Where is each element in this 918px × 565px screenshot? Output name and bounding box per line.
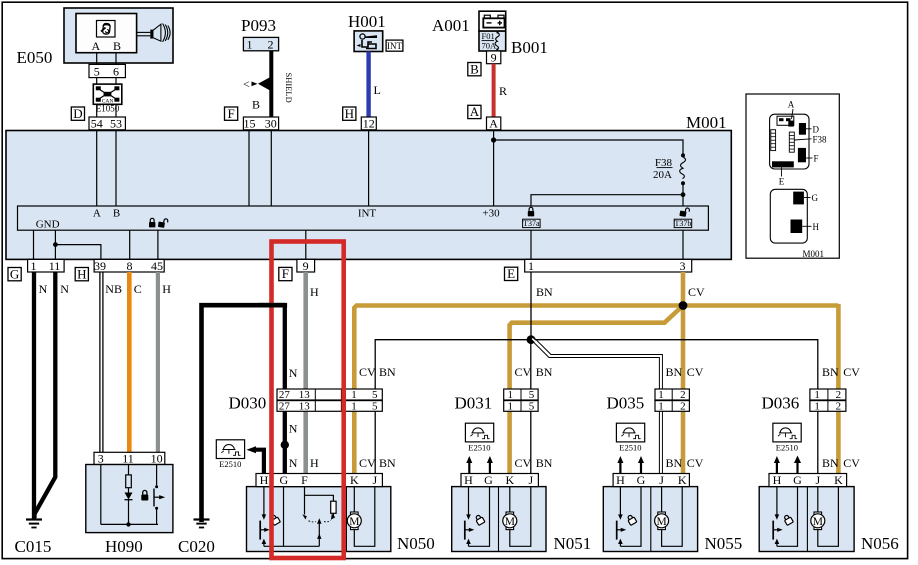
arrow up from N056 pin G	[794, 456, 801, 474]
connector pins 54 53 on M001	[89, 117, 125, 131]
svg-text:G: G	[484, 473, 493, 487]
svg-text:H: H	[310, 456, 319, 470]
svg-text:B001: B001	[511, 38, 548, 57]
svg-text:P093: P093	[241, 16, 276, 35]
wire pin30	[270, 130, 272, 207]
svg-text:1: 1	[508, 401, 514, 413]
connector pins H G J K of N056	[769, 473, 847, 487]
wire BN down to D031 and N051 pin J	[530, 340, 532, 474]
wire H grey pin9 to D030	[303, 272, 308, 474]
svg-text:1: 1	[658, 401, 664, 413]
svg-text:B: B	[252, 98, 260, 112]
wire T37b to pin 3	[682, 230, 684, 259]
svg-text:E050: E050	[17, 48, 53, 67]
svg-text:CV: CV	[687, 456, 704, 470]
window motor assembly N056	[759, 487, 854, 552]
svg-text:1: 1	[351, 401, 357, 413]
svg-text:D030: D030	[229, 394, 267, 413]
svg-text:N: N	[289, 422, 298, 436]
node H mid	[75, 266, 88, 281]
svg-text:N050: N050	[397, 534, 435, 553]
svg-text:CV: CV	[843, 365, 860, 379]
svg-text:N: N	[289, 456, 298, 470]
door switch in N050	[260, 487, 280, 547]
wire CAN to pin 54	[96, 104, 98, 117]
wire pin12 to INT	[368, 130, 370, 207]
connector pin A on M001	[487, 117, 501, 131]
svg-text:K: K	[505, 473, 514, 487]
svg-text:1: 1	[814, 389, 820, 401]
window motor assembly N050	[247, 487, 391, 552]
svg-text:H: H	[616, 473, 625, 487]
door switch in N056	[773, 487, 793, 547]
svg-text:+30: +30	[482, 208, 500, 220]
wire E050 A to pin 5	[96, 53, 98, 65]
svg-text:1: 1	[658, 389, 664, 401]
svg-text:L: L	[374, 83, 381, 97]
svg-text:10: 10	[151, 452, 163, 466]
wire pin53 to B	[115, 130, 117, 207]
shield wire from P093 pin 2	[243, 51, 271, 117]
body computer M001	[6, 113, 731, 259]
node B	[468, 61, 481, 76]
svg-text:9: 9	[491, 51, 497, 65]
motor M in N051	[503, 512, 517, 530]
highlight red rectangle	[272, 242, 344, 559]
svg-text:70A: 70A	[482, 41, 498, 51]
svg-text:BN: BN	[536, 456, 553, 470]
svg-text:A001: A001	[432, 16, 470, 35]
svg-text:H090: H090	[105, 537, 143, 556]
GND wire to pin 11	[54, 230, 56, 259]
svg-text:E2510: E2510	[776, 443, 798, 453]
svg-text:CV: CV	[843, 456, 860, 470]
svg-text:N056: N056	[861, 534, 899, 553]
connector pins 3 11 10 of H090	[94, 452, 165, 466]
svg-text:F: F	[814, 154, 819, 164]
node F mid	[279, 266, 292, 281]
svg-text:A: A	[91, 39, 100, 53]
svg-text:B: B	[113, 208, 120, 220]
svg-text:2: 2	[836, 389, 842, 401]
svg-text:N055: N055	[705, 534, 743, 553]
connector D036	[810, 389, 846, 413]
svg-text:F38: F38	[813, 135, 828, 145]
wire L blue from H001	[366, 52, 370, 118]
svg-text:D035: D035	[607, 394, 645, 413]
svg-text:13: 13	[299, 389, 311, 401]
padlock open in strip	[158, 218, 168, 228]
node H top	[343, 106, 356, 121]
connector pins 5 6 of E050	[89, 64, 125, 78]
junction dot on N wire	[281, 441, 289, 449]
wire T37a to pin 1	[530, 230, 532, 259]
svg-text:53: 53	[110, 117, 122, 131]
svg-text:D031: D031	[455, 394, 493, 413]
svg-text:3: 3	[98, 452, 104, 466]
svg-text:J: J	[528, 473, 533, 487]
connector pins H G F K J of N050	[256, 473, 382, 487]
wire strip to pin 8	[129, 230, 131, 259]
svg-text:INT: INT	[358, 208, 377, 220]
svg-text:1: 1	[508, 389, 514, 401]
svg-text:15: 15	[244, 117, 256, 131]
svg-text:N: N	[289, 366, 298, 380]
svg-text:27: 27	[279, 389, 291, 401]
wire pin6 to CAN node	[115, 78, 117, 85]
svg-text:BN: BN	[666, 365, 683, 379]
svg-text:11: 11	[49, 259, 61, 273]
svg-text:C020: C020	[178, 537, 215, 556]
svg-text:54: 54	[91, 117, 103, 131]
svg-text:BN: BN	[822, 456, 839, 470]
T37b terminal with padlock	[674, 207, 692, 228]
svg-text:2: 2	[836, 401, 842, 413]
svg-text:1: 1	[31, 259, 37, 273]
GND branch to pin 39	[55, 245, 101, 260]
svg-text:GND: GND	[36, 219, 60, 231]
interior light control E2510 (D035)	[616, 423, 644, 452]
BN junction dot	[527, 335, 536, 344]
svg-text:B: B	[113, 39, 121, 53]
svg-text:SHIELD: SHIELD	[284, 73, 294, 103]
svg-text:E2510: E2510	[619, 443, 641, 453]
svg-text:D: D	[73, 106, 82, 121]
node A junction dot	[491, 137, 496, 142]
svg-text:1: 1	[814, 401, 820, 413]
door switch in N055	[617, 487, 637, 547]
svg-text:BN: BN	[536, 285, 553, 299]
horn icon of E050	[137, 24, 171, 42]
svg-text:N051: N051	[554, 534, 592, 553]
arrow up from N055 pin H	[617, 456, 623, 474]
wire fuse to T37b	[682, 195, 684, 206]
INT tag	[386, 40, 403, 51]
svg-text:5: 5	[529, 389, 535, 401]
node E	[505, 266, 518, 281]
svg-text:CV: CV	[515, 365, 532, 379]
wire fuse to T37a	[531, 195, 683, 206]
svg-text:8: 8	[127, 259, 133, 273]
ground C020	[194, 520, 210, 528]
wire A to fuse F38	[494, 140, 683, 155]
connector D030	[277, 389, 382, 413]
connector pins 1 3 below M001	[525, 259, 692, 273]
svg-text:H: H	[464, 473, 473, 487]
svg-text:2: 2	[268, 37, 274, 51]
svg-text:2: 2	[680, 389, 686, 401]
svg-text:H: H	[310, 285, 319, 299]
svg-text:BN: BN	[822, 365, 839, 379]
node F top	[225, 106, 238, 121]
arrow up from N056 pin H	[774, 456, 780, 474]
svg-text:A: A	[788, 100, 795, 110]
svg-text:A: A	[93, 208, 101, 220]
svg-text:F: F	[282, 266, 289, 281]
connector pin 12 on M001	[361, 117, 376, 131]
svg-text:BN: BN	[379, 365, 396, 379]
svg-text:20A: 20A	[653, 169, 672, 181]
svg-text:K: K	[834, 473, 843, 487]
svg-text:CV: CV	[359, 365, 376, 379]
svg-text:11: 11	[122, 452, 134, 466]
ignition switch H001	[348, 12, 386, 52]
svg-text:E2510: E2510	[219, 459, 241, 469]
wire strip to pin 45	[157, 230, 159, 259]
interior light control E2510 (D030)	[216, 440, 244, 469]
wire H grey pin45 to H090 pin10	[156, 272, 160, 452]
svg-text:5: 5	[529, 401, 535, 413]
svg-text:12: 12	[363, 117, 375, 131]
wire N black D030 column	[283, 305, 287, 473]
svg-text:J: J	[815, 473, 820, 487]
svg-text:T37a: T37a	[523, 219, 540, 228]
svg-text:30: 30	[265, 117, 277, 131]
gold CV wire main distribution	[354, 272, 838, 487]
motor M in N050	[347, 512, 361, 530]
interior light control E2510 (D031)	[465, 423, 493, 452]
svg-text:3: 3	[680, 259, 686, 273]
window motor assembly N051	[452, 487, 546, 552]
wire strip to pin 9	[305, 230, 307, 259]
interior light control E2510 (D036)	[773, 423, 801, 452]
svg-text:H: H	[77, 266, 86, 281]
svg-text:N: N	[39, 282, 48, 296]
T37a terminal with padlock	[523, 207, 541, 228]
wire pin54 to A	[96, 130, 98, 207]
svg-text:D036: D036	[762, 394, 800, 413]
M001 connector location legend	[746, 94, 839, 259]
relay contact and resistor in N050	[302, 487, 336, 547]
GND wire to pin 1	[33, 230, 35, 259]
wire CAN to pin 53	[115, 104, 117, 117]
svg-text:CV: CV	[688, 285, 705, 299]
fuse B001 F01 70A	[479, 31, 548, 57]
CAN network node E1050	[93, 84, 122, 105]
svg-text:N: N	[60, 282, 69, 296]
svg-text:1: 1	[247, 37, 253, 51]
svg-text:13: 13	[299, 401, 311, 413]
svg-text:INT: INT	[387, 41, 402, 51]
svg-text:9: 9	[303, 259, 309, 273]
connector pin 9 of B001	[487, 51, 501, 65]
svg-text:A: A	[489, 117, 498, 131]
wire E050 B to pin 6	[115, 53, 117, 65]
svg-text:H: H	[260, 473, 269, 487]
node G	[8, 266, 21, 281]
connector pins H G K J of N051	[461, 473, 538, 487]
connector pins 15 30 on M001	[243, 117, 278, 131]
svg-text:B: B	[470, 61, 479, 76]
svg-text:M001: M001	[802, 249, 824, 259]
wire BN from E pin1	[530, 272, 532, 340]
CV junction dot	[679, 301, 688, 310]
svg-text:J: J	[372, 473, 377, 487]
svg-text:D: D	[813, 125, 820, 135]
door lock actuator H090	[86, 465, 173, 533]
connector pin 9 below M001	[297, 259, 315, 273]
svg-text:NB: NB	[105, 282, 122, 296]
antenna unit P093	[241, 16, 279, 51]
wire pin5 to CAN node	[96, 78, 98, 85]
svg-text:CV: CV	[515, 456, 532, 470]
arrow up from N051 pin G	[487, 456, 493, 474]
svg-text:H: H	[773, 473, 782, 487]
svg-text:M001: M001	[686, 113, 727, 132]
node A	[468, 104, 481, 119]
svg-text:6: 6	[113, 64, 119, 78]
wire N black pin11 to C015	[35, 272, 56, 518]
svg-text:5: 5	[94, 64, 100, 78]
svg-text:K: K	[678, 473, 687, 487]
svg-text:H: H	[345, 106, 354, 121]
door switch in N051	[465, 487, 485, 547]
svg-text:39: 39	[94, 259, 106, 273]
wire N black pin1 to C015	[32, 272, 36, 519]
svg-text:BN: BN	[536, 365, 553, 379]
GND junction dot	[53, 242, 58, 247]
window motor assembly N055	[603, 487, 697, 552]
svg-text:1: 1	[351, 389, 357, 401]
svg-text:CV: CV	[687, 365, 704, 379]
svg-text:H: H	[162, 282, 171, 296]
svg-text:45: 45	[151, 259, 163, 273]
svg-text:T37b: T37b	[675, 219, 692, 228]
connector D035	[655, 389, 689, 413]
wire NB white-black pin39 to H090 pin3	[100, 272, 103, 452]
svg-text:BN: BN	[666, 456, 683, 470]
ground C015	[26, 520, 42, 528]
battery A001	[432, 11, 506, 35]
wire BN white to D035	[531, 337, 662, 473]
motor M in N055	[655, 512, 669, 530]
svg-text:H001: H001	[348, 12, 386, 31]
wire pin15	[248, 130, 250, 207]
node D	[71, 106, 84, 121]
svg-text:G: G	[812, 193, 819, 203]
wire pinA to +30	[493, 130, 495, 207]
svg-text:<: <	[243, 77, 250, 91]
wire R red battery feed	[492, 64, 496, 117]
wire BN rail to D030 and D036	[375, 340, 818, 474]
svg-text:G: G	[637, 473, 646, 487]
svg-text:5: 5	[372, 389, 378, 401]
connector D031	[504, 389, 538, 413]
fuse F38 20A	[653, 153, 685, 197]
svg-text:C: C	[134, 282, 142, 296]
arrow up from N055 pin G	[638, 456, 644, 474]
svg-text:5: 5	[372, 401, 378, 413]
svg-text:CV: CV	[359, 456, 376, 470]
svg-text:E2510: E2510	[468, 443, 490, 453]
rail H to G to arm in N050	[264, 545, 319, 547]
wire arrow to E2510 from N050 pin H	[247, 446, 264, 473]
svg-text:H: H	[813, 222, 820, 232]
padlock closed in strip	[149, 218, 155, 227]
svg-text:F: F	[227, 106, 234, 121]
svg-text:E: E	[779, 177, 785, 187]
svg-text:G: G	[793, 473, 802, 487]
svg-text:F: F	[301, 473, 308, 487]
svg-text:K: K	[350, 473, 359, 487]
svg-text:A: A	[470, 104, 480, 119]
svg-text:C015: C015	[15, 537, 52, 556]
connector pins H G J K of N055	[613, 473, 689, 487]
connector pins 1 11 below M001	[28, 259, 65, 273]
wire C orange pin8 to H090 pin11	[127, 272, 132, 452]
connector pins 39 8 45 below M001	[94, 259, 164, 273]
svg-text:R: R	[499, 84, 507, 98]
motor M in N056	[811, 512, 825, 530]
arrow up from N051 pin H	[466, 456, 472, 474]
svg-text:BN: BN	[379, 456, 396, 470]
control unit E050	[64, 8, 173, 63]
svg-text:E: E	[507, 266, 515, 281]
svg-text:27: 27	[279, 401, 291, 413]
svg-text:1: 1	[528, 259, 534, 273]
svg-text:J: J	[659, 473, 664, 487]
wire N black C020 riser	[202, 305, 285, 522]
svg-text:2: 2	[680, 401, 686, 413]
svg-text:G: G	[279, 473, 288, 487]
svg-text:G: G	[10, 266, 19, 281]
wire N black elbow over highlight	[258, 303, 287, 308]
